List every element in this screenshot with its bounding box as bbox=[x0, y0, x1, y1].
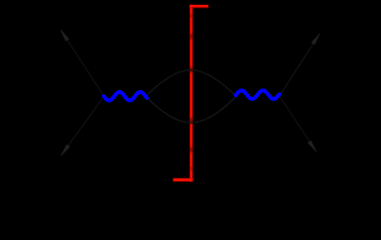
cut line bottom serif (leftward hook) bbox=[173, 178, 193, 181]
arrowhead on top-left fermion line bbox=[60, 29, 69, 41]
dark smudge on cut line y~35 bbox=[188, 34, 193, 39]
dark smudge on cut line y~16 bbox=[189, 15, 195, 18]
fermion loop (ellipse) bbox=[146, 70, 237, 123]
fermion line incoming top-left bbox=[61, 30, 105, 97]
arrowhead on bottom-right fermion line bbox=[308, 140, 317, 152]
fermion line outgoing top-right bbox=[280, 33, 321, 96]
cut line (red) vertical segment bbox=[190, 5, 193, 182]
fermion line outgoing bottom-right bbox=[280, 96, 317, 152]
arrowhead on bottom-left fermion line bbox=[61, 144, 70, 156]
dark smudge on cut line y~169 bbox=[189, 167, 195, 170]
photon wave left bbox=[104, 92, 147, 101]
arrowhead on top-right fermion line bbox=[311, 33, 320, 45]
photon wave right bbox=[236, 90, 279, 99]
fermion line incoming bottom-left bbox=[61, 96, 104, 155]
dark smudge on cut line y~121 (loop crossing) bbox=[188, 118, 193, 123]
dark smudge on cut line y~70 (loop crossing) bbox=[188, 68, 193, 73]
cut line top serif (rightward hook) bbox=[190, 5, 209, 8]
dark smudge on cut line y~150 bbox=[188, 148, 193, 152]
